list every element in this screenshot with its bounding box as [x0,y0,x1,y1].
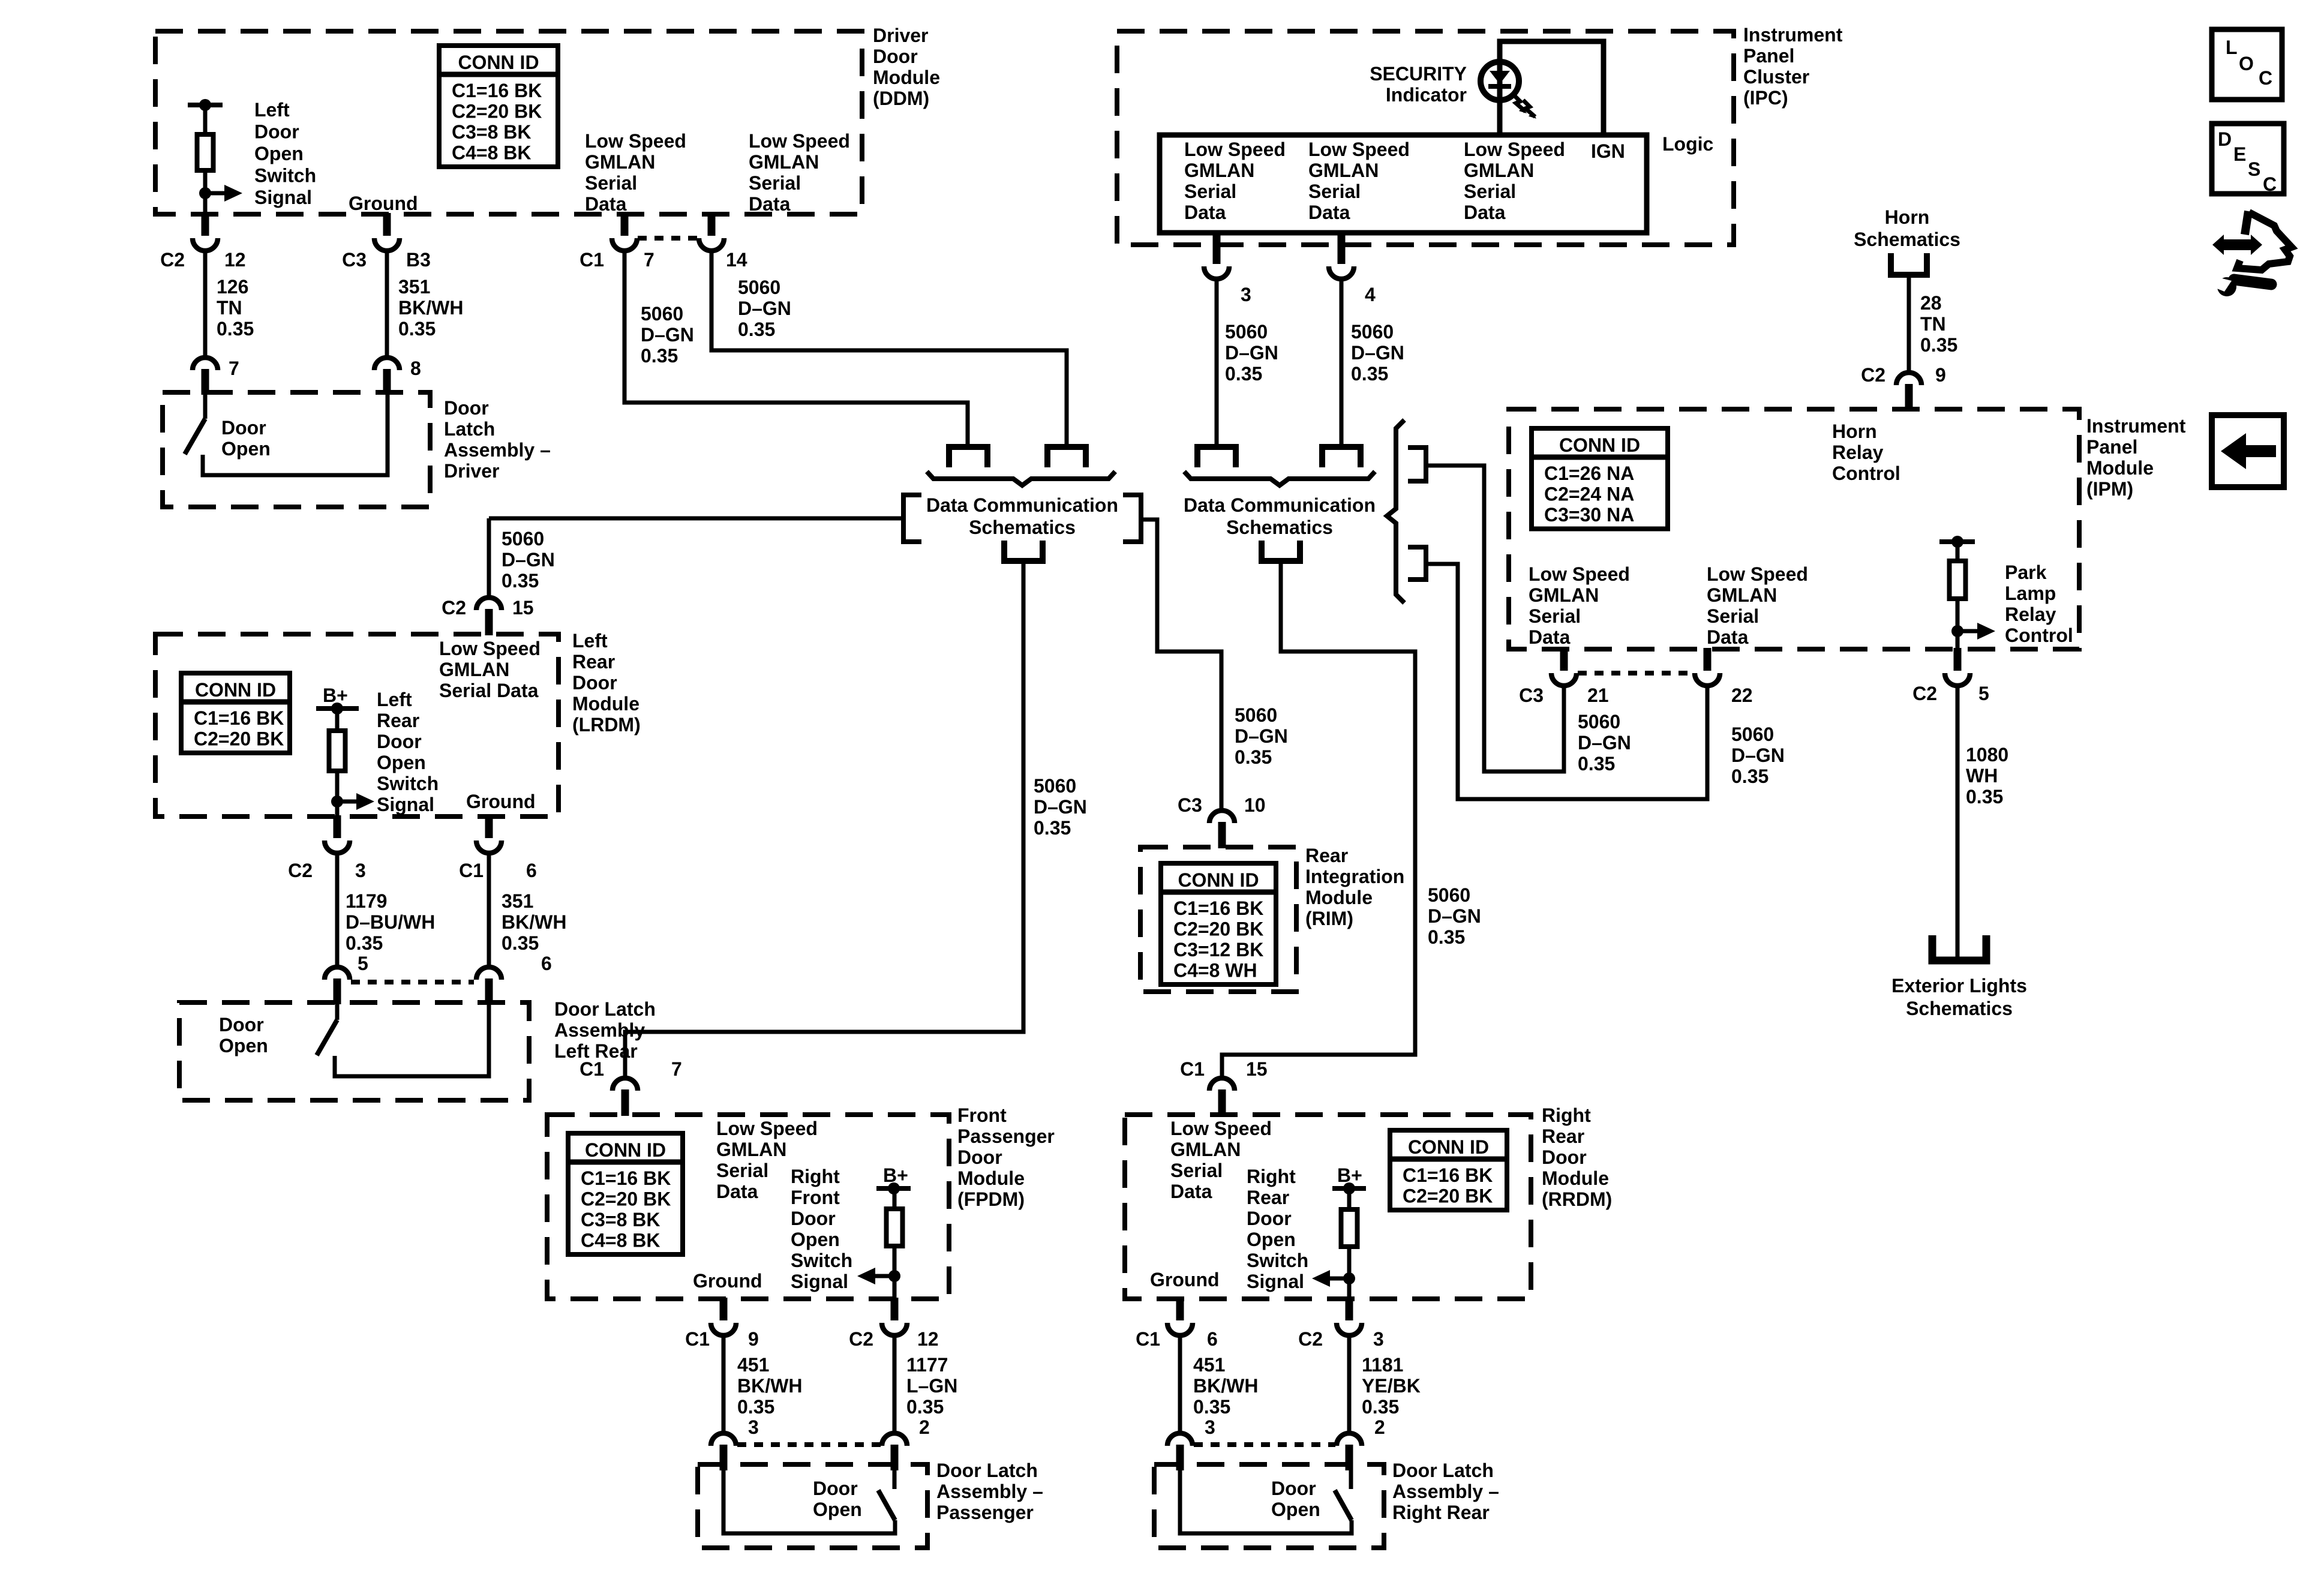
svg-text:D–GN: D–GN [502,549,555,571]
svg-text:GMLAN: GMLAN [716,1139,786,1160]
svg-text:22: 22 [1731,685,1753,706]
svg-text:C1: C1 [580,1058,604,1080]
svg-text:C2=20 BK: C2=20 BK [1173,918,1263,940]
svg-text:Door: Door [254,121,299,143]
svg-text:Low Speed: Low Speed [749,130,850,152]
svg-text:Relay: Relay [2005,604,2056,625]
svg-text:Module: Module [1542,1167,1609,1189]
svg-text:0.35: 0.35 [738,319,775,340]
svg-text:14: 14 [726,249,747,271]
svg-text:Serial: Serial [1308,181,1361,202]
svg-text:Door: Door [221,417,266,439]
svg-text:Right: Right [1542,1104,1591,1126]
svg-text:10: 10 [1244,794,1266,816]
svg-text:Schematics: Schematics [1226,517,1333,538]
svg-text:D–BU/WH: D–BU/WH [346,911,435,933]
svg-text:Switch: Switch [791,1250,852,1271]
svg-text:GMLAN: GMLAN [1170,1139,1241,1160]
svg-text:BK/WH: BK/WH [398,297,463,319]
svg-text:Panel: Panel [2086,436,2137,458]
svg-text:Module: Module [572,693,639,715]
svg-text:21: 21 [1587,685,1609,706]
svg-text:Low Speed: Low Speed [1184,139,1286,160]
svg-text:Left: Left [254,99,290,121]
svg-text:0.35: 0.35 [1578,753,1615,775]
svg-text:D–GN: D–GN [1225,342,1278,364]
svg-text:C: C [2263,173,2277,195]
svg-text:Left: Left [572,630,608,652]
svg-text:Data: Data [716,1181,758,1202]
svg-text:0.35: 0.35 [1225,363,1262,385]
svg-text:C2: C2 [160,249,185,271]
svg-text:GMLAN: GMLAN [585,151,655,173]
svg-text:Schematics: Schematics [1854,229,1960,250]
svg-text:GMLAN: GMLAN [749,151,819,173]
svg-text:2: 2 [1374,1416,1385,1438]
svg-text:Horn: Horn [1885,206,1930,228]
svg-text:15: 15 [512,597,534,619]
svg-text:C2: C2 [1912,683,1937,704]
svg-text:C: C [2259,67,2272,89]
svg-text:D–GN: D–GN [1731,745,1785,766]
svg-text:0.35: 0.35 [502,570,539,592]
svg-text:0.35: 0.35 [641,345,678,367]
svg-text:2: 2 [919,1416,930,1438]
svg-text:Serial: Serial [585,172,637,194]
svg-text:Open: Open [254,143,304,164]
svg-text:D: D [2218,128,2232,150]
svg-text:Schematics: Schematics [1906,998,2013,1019]
svg-text:WH: WH [1966,765,1998,787]
svg-text:3: 3 [1373,1328,1384,1350]
svg-text:Indicator: Indicator [1386,84,1467,106]
svg-text:Assembly –: Assembly – [444,439,551,461]
svg-text:451: 451 [1193,1354,1225,1376]
svg-text:Open: Open [1247,1229,1296,1250]
svg-text:GMLAN: GMLAN [1707,584,1777,606]
svg-text:Exterior Lights: Exterior Lights [1891,975,2027,996]
svg-text:L: L [2226,37,2238,58]
svg-text:9: 9 [1935,364,1946,386]
svg-text:GMLAN: GMLAN [1184,160,1254,181]
svg-text:Open: Open [221,438,271,460]
svg-text:C1=16 BK: C1=16 BK [581,1167,671,1189]
svg-text:Right: Right [791,1166,840,1187]
svg-text:Serial: Serial [1529,605,1581,627]
svg-text:5060: 5060 [1731,724,1774,745]
svg-text:D–GN: D–GN [1351,342,1404,364]
svg-text:Door: Door [873,46,918,67]
svg-text:C2=24 NA: C2=24 NA [1544,484,1634,505]
svg-text:Data: Data [1707,626,1749,648]
svg-text:5060: 5060 [1225,321,1268,343]
svg-text:Data: Data [585,193,627,215]
svg-text:Signal: Signal [791,1271,848,1292]
svg-text:C2: C2 [288,860,313,881]
svg-text:C1: C1 [1180,1058,1205,1080]
svg-text:Rear: Rear [377,710,419,731]
svg-text:YE/BK: YE/BK [1362,1375,1421,1397]
svg-text:9: 9 [748,1328,759,1350]
svg-text:(DDM): (DDM) [873,88,929,109]
svg-text:Serial: Serial [1184,181,1236,202]
svg-text:CONN ID: CONN ID [1408,1136,1489,1158]
svg-text:GMLAN: GMLAN [1464,160,1534,181]
svg-text:C3: C3 [1519,685,1544,706]
svg-text:Data: Data [749,193,791,215]
svg-text:Driver: Driver [444,460,500,482]
svg-text:5: 5 [358,953,368,974]
svg-text:C3=8 BK: C3=8 BK [452,121,532,143]
svg-text:Low Speed: Low Speed [716,1118,818,1139]
svg-text:Low Speed: Low Speed [439,638,541,659]
svg-text:Cluster: Cluster [1743,66,1809,88]
svg-text:Low Speed: Low Speed [1464,139,1565,160]
svg-text:Data: Data [1308,202,1350,223]
svg-text:6: 6 [541,953,552,974]
svg-text:12: 12 [224,249,246,271]
svg-text:Rear: Rear [572,651,615,673]
svg-text:C2=20 BK: C2=20 BK [1403,1185,1493,1207]
svg-text:Serial: Serial [1707,605,1759,627]
svg-text:Serial: Serial [1170,1160,1223,1181]
svg-text:5060: 5060 [641,303,683,325]
svg-text:0.35: 0.35 [346,932,383,954]
svg-text:Door: Door [444,397,489,419]
svg-text:Ground: Ground [1150,1269,1220,1290]
svg-text:Front: Front [957,1104,1007,1126]
svg-text:Door: Door [572,672,617,694]
svg-text:Ground: Ground [349,193,418,214]
svg-text:7: 7 [229,358,239,379]
svg-text:C2: C2 [849,1328,873,1350]
svg-text:Module: Module [1305,887,1373,908]
svg-text:0.35: 0.35 [1235,746,1272,768]
svg-text:6: 6 [526,860,537,881]
svg-text:BK/WH: BK/WH [502,911,566,933]
svg-text:Instrument: Instrument [1743,24,1843,46]
svg-text:5060: 5060 [1235,704,1277,726]
svg-text:0.35: 0.35 [1966,786,2003,807]
svg-text:C3: C3 [1178,794,1202,816]
svg-text:Serial: Serial [716,1160,768,1181]
svg-text:Front: Front [791,1187,840,1208]
svg-text:5060: 5060 [502,528,544,550]
svg-text:C4=8 BK: C4=8 BK [581,1230,660,1251]
svg-text:Rear: Rear [1542,1125,1584,1147]
svg-text:Low Speed: Low Speed [1170,1118,1272,1139]
svg-text:C2: C2 [442,597,466,619]
svg-text:C2: C2 [1861,364,1885,386]
svg-text:Latch: Latch [444,418,495,440]
svg-text:(IPM): (IPM) [2086,478,2133,500]
svg-text:12: 12 [917,1328,939,1350]
svg-text:(RRDM): (RRDM) [1542,1188,1612,1210]
svg-text:Integration: Integration [1305,866,1404,887]
svg-text:Data Communication: Data Communication [926,494,1118,516]
svg-text:Rear: Rear [1247,1187,1289,1208]
svg-text:5060: 5060 [738,277,780,298]
svg-text:C2=20 BK: C2=20 BK [452,101,542,122]
svg-text:0.35: 0.35 [1351,363,1388,385]
svg-text:8: 8 [410,358,421,379]
svg-text:TN: TN [217,297,242,319]
svg-text:0.35: 0.35 [1362,1396,1399,1418]
svg-text:Switch: Switch [1247,1250,1308,1271]
svg-text:3: 3 [1241,284,1251,305]
svg-text:126: 126 [217,276,248,298]
svg-text:B3: B3 [406,249,431,271]
svg-text:Low Speed: Low Speed [1529,563,1630,585]
svg-text:Door: Door [1271,1478,1316,1499]
svg-text:Panel: Panel [1743,45,1794,67]
svg-text:Right: Right [1247,1166,1296,1187]
svg-text:GMLAN: GMLAN [1529,584,1599,606]
svg-text:Low Speed: Low Speed [1707,563,1808,585]
svg-text:Logic: Logic [1662,133,1713,155]
svg-text:0.35: 0.35 [737,1396,774,1418]
svg-text:C1=16 BK: C1=16 BK [1403,1164,1493,1186]
svg-text:Serial: Serial [749,172,801,194]
svg-text:CONN ID: CONN ID [1559,434,1640,456]
svg-text:3: 3 [1205,1416,1215,1438]
svg-text:SECURITY: SECURITY [1370,63,1467,85]
svg-text:Low Speed: Low Speed [585,130,686,152]
svg-text:Assembly –: Assembly – [1392,1481,1499,1502]
svg-text:C3=12 BK: C3=12 BK [1173,939,1263,960]
svg-text:Rear: Rear [1305,845,1348,866]
svg-text:Module: Module [957,1167,1025,1189]
svg-text:C1: C1 [580,249,604,271]
svg-text:1181: 1181 [1362,1354,1403,1376]
svg-text:Right Rear: Right Rear [1392,1502,1490,1523]
svg-text:C1=16 BK: C1=16 BK [1173,897,1263,919]
svg-text:28: 28 [1920,292,1942,314]
svg-text:Serial: Serial [1464,181,1516,202]
svg-text:D–GN: D–GN [641,324,694,346]
svg-text:Control: Control [2005,625,2073,646]
svg-text:0.35: 0.35 [1193,1396,1230,1418]
svg-text:Assembly –: Assembly – [554,1019,661,1041]
svg-text:TN: TN [1920,313,1946,335]
svg-text:D–GN: D–GN [1235,725,1288,747]
svg-text:D–GN: D–GN [738,298,791,319]
svg-text:CONN ID: CONN ID [458,52,539,73]
svg-text:(FPDM): (FPDM) [957,1188,1025,1210]
svg-text:Ground: Ground [693,1270,762,1292]
svg-text:Module: Module [873,67,940,88]
svg-text:Passenger: Passenger [936,1502,1034,1523]
svg-text:0.35: 0.35 [1731,766,1768,787]
svg-text:0.35: 0.35 [398,318,436,340]
svg-text:Door Latch: Door Latch [1392,1460,1494,1481]
svg-text:Open: Open [813,1499,862,1520]
svg-text:O: O [2239,53,2254,74]
svg-text:Open: Open [791,1229,840,1250]
svg-text:GMLAN: GMLAN [439,659,509,680]
svg-text:351: 351 [398,276,430,298]
svg-text:0.35: 0.35 [1034,817,1071,839]
svg-text:C1: C1 [1136,1328,1160,1350]
svg-text:Passenger: Passenger [957,1125,1055,1147]
svg-text:Driver: Driver [873,25,929,46]
svg-text:0.35: 0.35 [1920,334,1957,356]
svg-text:Serial Data: Serial Data [439,680,539,701]
svg-text:C4=8 BK: C4=8 BK [452,142,532,164]
svg-text:Data: Data [1464,202,1506,223]
svg-text:Signal: Signal [377,794,434,815]
svg-text:CONN ID: CONN ID [195,679,276,701]
svg-text:Door Latch: Door Latch [554,998,656,1020]
svg-text:C1=16 BK: C1=16 BK [452,80,542,101]
svg-text:0.35: 0.35 [502,932,539,954]
svg-text:BK/WH: BK/WH [1193,1375,1258,1397]
svg-text:Door: Door [957,1146,1002,1168]
svg-text:Low Speed: Low Speed [1308,139,1410,160]
svg-text:Data: Data [1529,626,1571,648]
svg-text:BK/WH: BK/WH [737,1375,802,1397]
svg-text:Data Communication: Data Communication [1184,494,1376,516]
svg-text:Door: Door [813,1478,858,1499]
svg-text:1177: 1177 [906,1354,948,1376]
svg-text:Horn: Horn [1832,421,1877,442]
svg-text:Open: Open [377,752,426,773]
svg-text:C3: C3 [342,249,367,271]
svg-text:C3=8 BK: C3=8 BK [581,1209,660,1230]
svg-text:7: 7 [671,1058,682,1080]
svg-text:Switch: Switch [254,165,316,187]
svg-text:1080: 1080 [1966,744,2008,766]
svg-text:Door: Door [1542,1146,1587,1168]
svg-text:C2=20 BK: C2=20 BK [194,728,284,750]
svg-text:5: 5 [1978,683,1989,704]
svg-text:(IPC): (IPC) [1743,87,1788,109]
svg-text:3: 3 [355,860,366,881]
svg-text:6: 6 [1207,1328,1218,1350]
svg-text:5060: 5060 [1578,711,1620,733]
svg-text:Control: Control [1832,463,1900,484]
svg-text:1179: 1179 [346,890,387,912]
svg-text:4: 4 [1365,284,1376,305]
svg-text:(RIM): (RIM) [1305,908,1353,929]
svg-text:0.35: 0.35 [1428,926,1465,948]
svg-text:CONN ID: CONN ID [1178,869,1259,891]
svg-text:GMLAN: GMLAN [1308,160,1379,181]
svg-text:Schematics: Schematics [969,517,1076,538]
svg-text:(LRDM): (LRDM) [572,714,641,736]
svg-text:0.35: 0.35 [906,1396,944,1418]
svg-text:C1: C1 [685,1328,710,1350]
svg-text:Left: Left [377,689,412,710]
svg-text:5060: 5060 [1428,884,1470,906]
svg-text:Door: Door [219,1014,264,1035]
svg-text:Lamp: Lamp [2005,583,2056,604]
svg-text:Signal: Signal [254,187,312,208]
svg-text:Door: Door [1247,1208,1292,1229]
svg-text:C1=26 NA: C1=26 NA [1544,463,1634,484]
svg-text:451: 451 [737,1354,769,1376]
svg-text:Instrument: Instrument [2086,415,2186,437]
svg-text:C3=30 NA: C3=30 NA [1544,504,1634,526]
svg-text:Signal: Signal [1247,1271,1304,1292]
svg-text:D–GN: D–GN [1428,905,1481,927]
svg-text:D–GN: D–GN [1034,796,1087,818]
svg-text:5060: 5060 [1034,775,1076,797]
svg-text:Assembly –: Assembly – [936,1481,1043,1502]
svg-text:C2=20 BK: C2=20 BK [581,1188,671,1210]
svg-text:C2: C2 [1298,1328,1323,1350]
svg-text:Door: Door [377,731,422,752]
svg-text:7: 7 [644,249,654,271]
svg-text:Data: Data [1184,202,1226,223]
svg-text:Open: Open [1271,1499,1320,1520]
svg-text:E: E [2233,143,2246,165]
svg-text:L–GN: L–GN [906,1375,957,1397]
svg-text:C1=16 BK: C1=16 BK [194,707,284,729]
svg-text:S: S [2248,158,2260,180]
svg-text:351: 351 [502,890,533,912]
svg-text:Ground: Ground [466,791,536,812]
svg-text:Relay: Relay [1832,442,1884,463]
svg-text:C4=8 WH: C4=8 WH [1173,960,1257,981]
svg-text:Door: Door [791,1208,836,1229]
svg-text:15: 15 [1246,1058,1268,1080]
svg-text:Door Latch: Door Latch [936,1460,1038,1481]
svg-text:IGN: IGN [1591,140,1625,162]
svg-text:3: 3 [748,1416,759,1438]
svg-text:D–GN: D–GN [1578,732,1631,754]
svg-text:Switch: Switch [377,773,439,794]
svg-text:Module: Module [2086,457,2154,479]
svg-text:0.35: 0.35 [217,318,254,340]
svg-text:5060: 5060 [1351,321,1394,343]
svg-text:Park: Park [2005,562,2047,583]
svg-text:Open: Open [219,1035,268,1056]
svg-text:C1: C1 [459,860,484,881]
svg-text:CONN ID: CONN ID [585,1139,666,1161]
svg-text:Data: Data [1170,1181,1212,1202]
